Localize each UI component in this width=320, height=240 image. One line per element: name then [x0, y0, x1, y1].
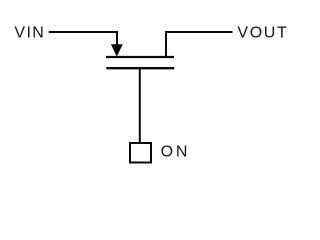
svg-text:ON: ON: [161, 144, 191, 161]
wire: [166, 32, 233, 57]
switch control box: [130, 143, 151, 163]
svg-text:VOUT: VOUT: [237, 24, 288, 41]
wire: [49, 32, 117, 47]
transistor gate bar: [106, 67, 174, 69]
transistor pass-FET arrow: [111, 44, 123, 56]
wire: [139, 68, 141, 143]
svg-text:VIN: VIN: [14, 24, 45, 41]
transistor channel bar: [106, 56, 174, 58]
